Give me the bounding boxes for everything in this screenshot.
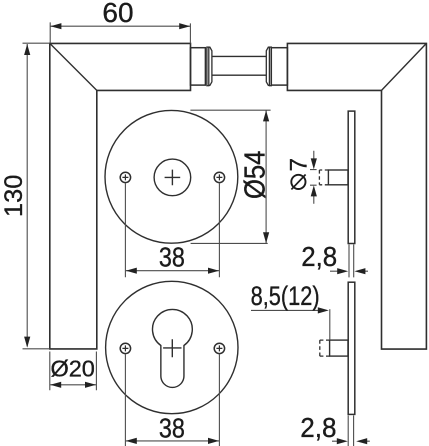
dimension 60 line <box>50 25 190 27</box>
dimension Ø54 line <box>265 110 267 243</box>
left handle lever and grip outline <box>50 43 191 349</box>
right handle lever and grip outline <box>287 43 426 349</box>
upper rosette right screw <box>214 172 224 182</box>
svg-text:8,5(12): 8,5(12) <box>251 281 320 311</box>
lower strip cylinder pin hidden dashed <box>320 340 330 356</box>
dimension 60 arrowheads <box>50 23 61 29</box>
dimension Ø20 arrowheads <box>50 382 61 388</box>
dimension 8,5(12) leader drop line <box>329 309 331 340</box>
svg-text:60: 60 <box>102 0 133 28</box>
upper rosette outer circle <box>105 110 238 243</box>
right spindle ring <box>269 47 271 86</box>
label Ø7 symbol <box>291 175 305 190</box>
dimension 38 upper extension lines <box>125 183 219 277</box>
svg-text:7: 7 <box>286 158 313 171</box>
spindle shaft <box>212 56 266 75</box>
dimension Ø7 extension ticks <box>310 170 317 186</box>
left handle neck <box>191 48 206 85</box>
lower rosette euro cylinder keyhole <box>152 309 192 387</box>
dimension Ø20 extension lines <box>50 352 97 391</box>
dimension 2,8 lower extension lines <box>348 415 353 446</box>
svg-text:2,8: 2,8 <box>301 241 337 272</box>
left handle elbow diagonal <box>50 43 97 90</box>
upper rosette hub circle <box>154 159 191 196</box>
dimension 130 arrowheads <box>24 44 30 55</box>
svg-text:38: 38 <box>159 412 185 443</box>
lower rosette outer circle <box>106 281 238 413</box>
dimension 38 lower arrowheads <box>126 438 137 444</box>
dimension Ø54 extension lines <box>190 110 270 243</box>
right handle neck <box>271 48 287 85</box>
dimension Ø20 line <box>50 384 96 386</box>
dimension Ø7 arrow lines <box>313 151 315 204</box>
lower rosette center cross <box>163 339 181 357</box>
dimension 8,5(12) leader line <box>251 309 318 311</box>
svg-text:2,8: 2,8 <box>300 412 336 443</box>
dimension 130 line <box>26 44 28 346</box>
right spindle collar <box>266 47 269 85</box>
lower strip cylinder pin solid <box>330 340 348 356</box>
upper strip fixing pin solid <box>328 170 348 185</box>
dimension 2,8 lower arrows <box>332 440 370 442</box>
left spindle collar <box>209 47 212 85</box>
dimension 2,8 upper arrows <box>330 270 368 272</box>
dimension 38 lower line <box>126 440 219 442</box>
svg-text:Ø54: Ø54 <box>239 151 271 200</box>
lower rosette right screw <box>214 343 224 353</box>
dimension Ø7 arrowheads <box>311 158 317 169</box>
dimension 2,8 upper extension lines <box>349 244 354 277</box>
dimension 38 upper arrowheads <box>126 268 137 274</box>
upper strip fixing pin hidden dashed <box>319 170 328 185</box>
upper rosette left screw <box>120 172 130 182</box>
dimension Ø54 arrowheads <box>263 110 269 121</box>
dimension 38 lower extension lines <box>125 354 219 446</box>
lower rosette side view strip <box>348 282 355 414</box>
svg-text:Ø20: Ø20 <box>50 356 94 382</box>
left spindle ring <box>207 47 209 86</box>
lower rosette left screw <box>120 343 130 353</box>
svg-text:130: 130 <box>0 175 28 217</box>
dimension 60 extension lines <box>50 22 190 43</box>
dimension 38 upper line <box>126 270 219 272</box>
upper rosette side view strip <box>348 111 355 243</box>
dimension 130 extension lines <box>23 43 50 349</box>
upper rosette center cross <box>165 170 181 186</box>
svg-text:38: 38 <box>159 242 185 273</box>
right handle elbow diagonal <box>382 43 427 90</box>
